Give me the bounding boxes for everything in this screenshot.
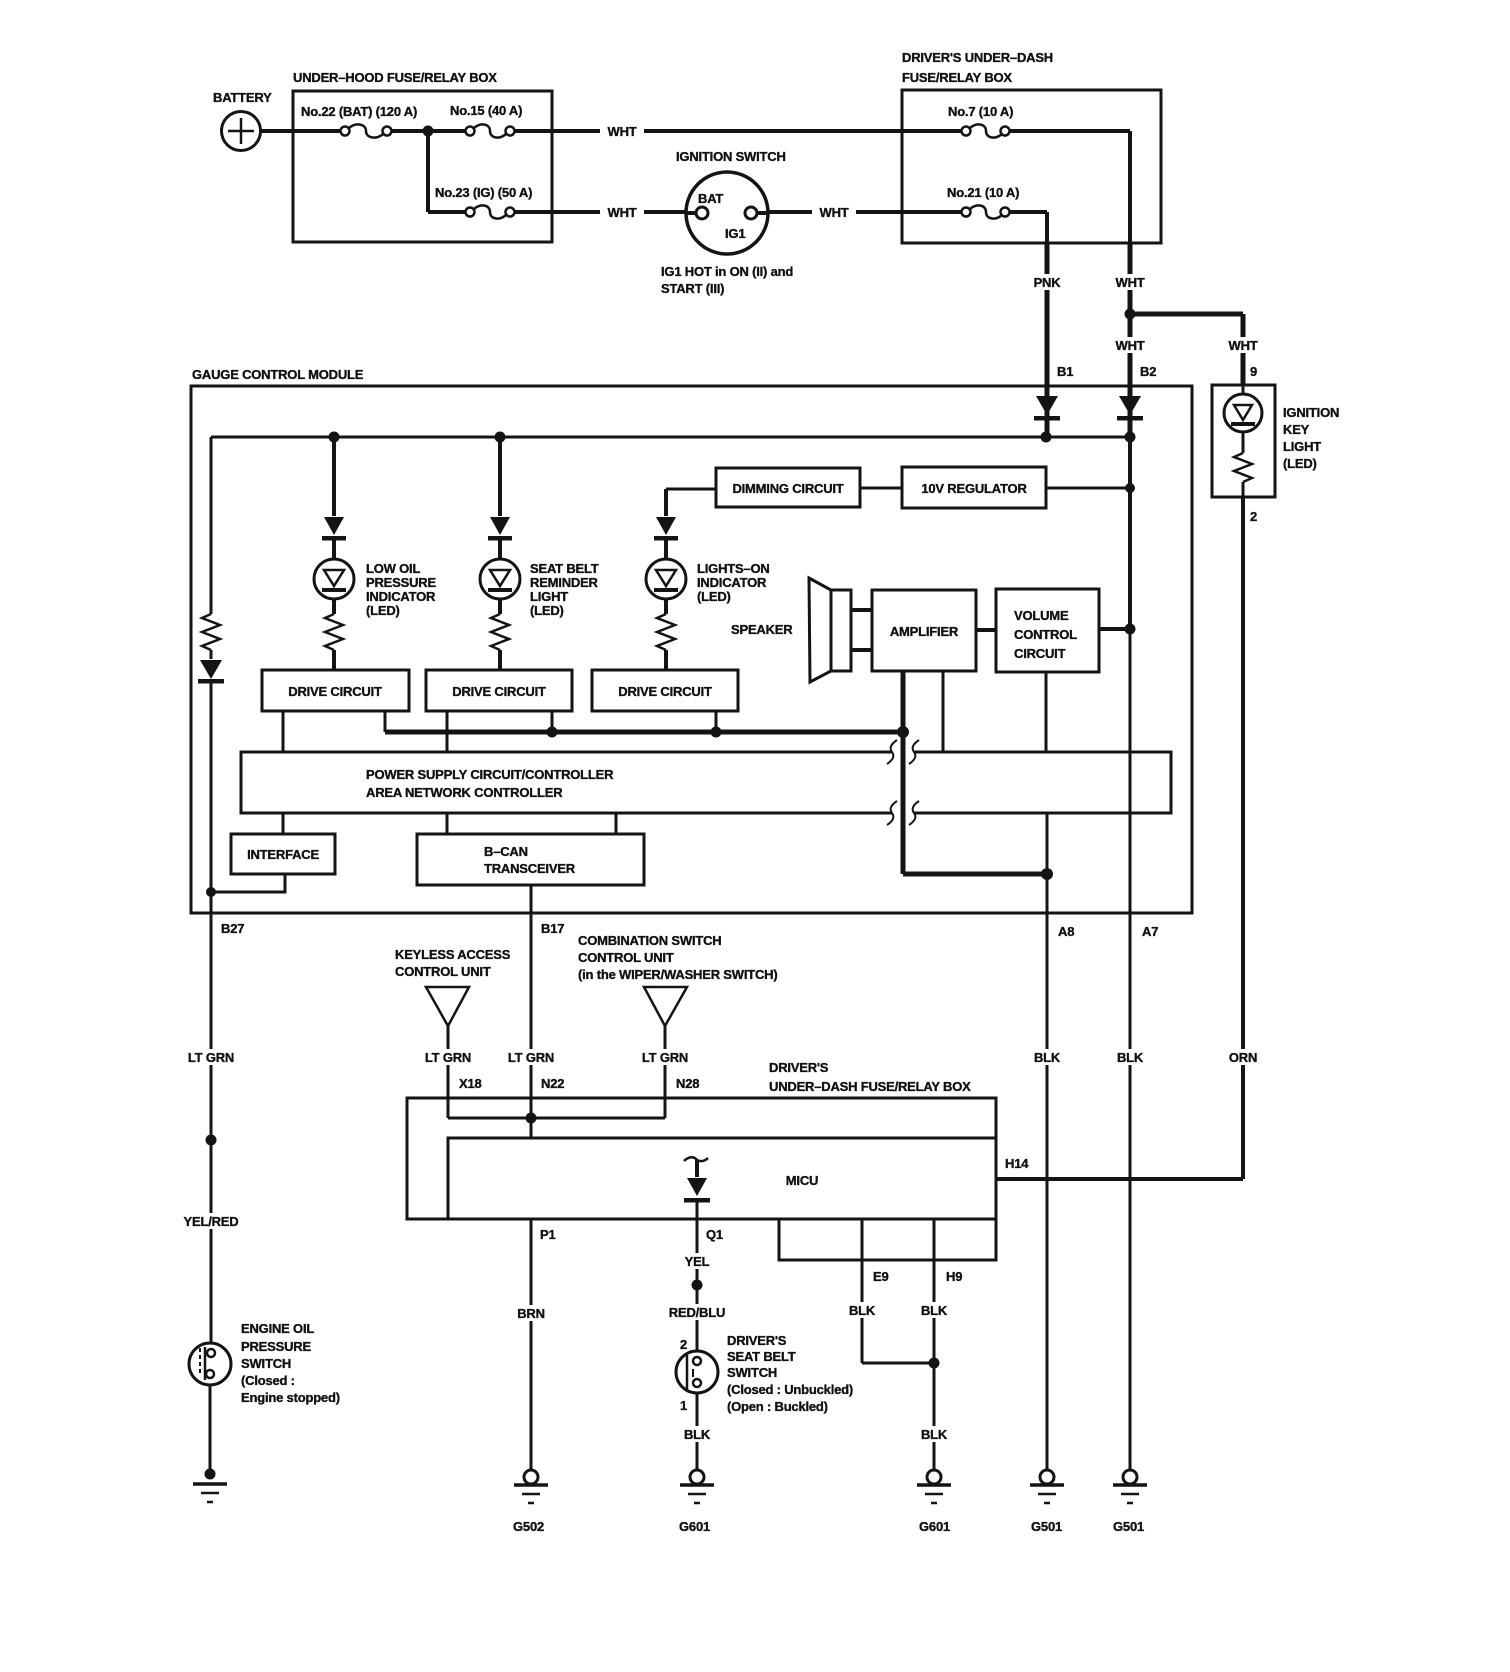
wire volume to WHT line [1099,627,1130,631]
resistor left spine [202,614,220,650]
svg-text:CONTROL UNIT: CONTROL UNIT [578,950,674,965]
svg-text:PNK: PNK [1034,275,1062,290]
ignition switch [676,149,786,254]
internal supply bus [211,436,1130,439]
svg-text:CONTROL: CONTROL [1014,627,1077,642]
svg-text:(Closed :: (Closed : [241,1373,295,1388]
ground G601 seat belt [679,1470,714,1534]
svg-text:DRIVER'S UNDER–DASH: DRIVER'S UNDER–DASH [902,50,1053,65]
svg-text:DRIVE CIRCUIT: DRIVE CIRCUIT [452,684,546,699]
node bus/B2 [1125,432,1136,443]
svg-text:No.22 (BAT) (120 A): No.22 (BAT) (120 A) [301,104,417,119]
node splice LT GRN / YEL RED [206,1135,217,1146]
wire branch to ignition key light [1130,312,1243,317]
diode Q1 inside MICU [684,1157,710,1351]
break mark bottom-right [909,801,919,825]
svg-text:X18: X18 [459,1076,482,1091]
wire down inside box WHT [1128,131,1132,243]
diode left spine [198,650,224,913]
wire B27 left spine below module [188,1049,234,1065]
svg-text:LIGHTS–ON: LIGHTS–ON [697,561,770,576]
svg-text:B27: B27 [221,921,244,936]
svg-text:(LED): (LED) [697,589,731,604]
svg-text:1: 1 [680,1398,687,1413]
node N22 join [526,1113,537,1124]
svg-text:CONTROL UNIT: CONTROL UNIT [395,964,491,979]
wire A7 down to ground [1129,629,1132,1471]
svg-text:BATTERY: BATTERY [213,90,272,105]
interface box [231,813,335,874]
wire WHT ignition to driver's box [768,210,962,214]
svg-text:(Open : Buckled): (Open : Buckled) [727,1399,828,1414]
node WHT branch junction [1125,309,1136,320]
MICU box [448,1138,996,1219]
note IG1 HOT [661,264,793,296]
svg-text:P1: P1 [540,1227,556,1242]
lower bus to amplifier [385,730,903,735]
wire WHT fuse23 to ignition switch [515,210,687,214]
wire drive3 to bus2 [715,711,718,732]
wire dimming to regulator [860,487,902,490]
fuse No.7 (10 A) [948,104,1013,138]
svg-text:GAUGE CONTROL MODULE: GAUGE CONTROL MODULE [192,367,364,382]
svg-text:SWITCH: SWITCH [727,1365,777,1380]
wire drive2 to bus2 [551,711,554,732]
10V regulator [902,467,1046,508]
wire amp to volume [976,628,996,632]
drive circuit box 3 [592,670,738,711]
wire junction to fuse15 [428,129,465,133]
svg-text:H14: H14 [1005,1156,1029,1171]
wire interface to left spine [211,874,285,892]
wire to fuse23 [428,210,465,214]
svg-text:10V REGULATOR: 10V REGULATOR [921,481,1027,496]
svg-text:DRIVER'S: DRIVER'S [727,1333,787,1348]
svg-text:IGNITION SWITCH: IGNITION SWITCH [676,149,786,164]
svg-text:UNDER–DASH FUSE/RELAY BOX: UNDER–DASH FUSE/RELAY BOX [769,1079,971,1094]
svg-text:SWITCH: SWITCH [241,1356,291,1371]
svg-text:YEL/RED: YEL/RED [184,1214,239,1229]
wire P1 down to ground G502 [530,1219,533,1471]
fuse No.22 (BAT) (120 A) [301,104,417,138]
svg-text:UNDER–HOOD FUSE/RELAY BOX: UNDER–HOOD FUSE/RELAY BOX [293,70,497,85]
combination switch control unit [578,933,778,1118]
svg-text:LT GRN: LT GRN [188,1050,234,1065]
svg-text:B–CAN: B–CAN [484,844,528,859]
svg-text:LT GRN: LT GRN [425,1050,471,1065]
LED chain 3: lights-on indicator [646,489,770,670]
wire PNK below box to module [1045,243,1050,395]
dimming circuit [716,468,860,507]
wire dimming to chain3 [666,488,716,491]
svg-text:INDICATOR: INDICATOR [366,589,436,604]
node interface join [206,887,216,897]
wire battery to under-hood box [260,129,340,133]
wire WHT below box down [1128,243,1133,395]
node bus/chain1 [329,432,340,443]
svg-text:LIGHT: LIGHT [1283,439,1321,454]
svg-text:G501: G501 [1113,1519,1144,1534]
node junction under-hood [423,126,434,137]
wire amp line to A8 junction [903,872,1047,877]
battery [213,90,272,151]
node bus2/drive2 [547,727,558,738]
svg-text:BLK: BLK [849,1303,876,1318]
svg-text:KEY: KEY [1283,422,1310,437]
svg-text:WHT: WHT [1116,275,1145,290]
svg-text:WHT: WHT [608,124,637,139]
wire WHT line down [1128,437,1132,629]
ignition key light (LED) [1212,385,1339,497]
ground G501 A8 [1030,1470,1064,1534]
svg-text:DRIVE CIRCUIT: DRIVE CIRCUIT [288,684,382,699]
svg-text:(in the WIPER/WASHER SWITCH): (in the WIPER/WASHER SWITCH) [578,967,778,982]
svg-text:B1: B1 [1057,364,1073,379]
svg-text:REMINDER: REMINDER [530,575,599,590]
break mark top-left [887,740,897,764]
wire E9 [861,1219,864,1363]
wire fuse7 to corner [1010,129,1130,133]
svg-text:WHT: WHT [608,205,637,220]
wire amplifier down through power box [901,671,906,874]
ground G502 [513,1470,548,1534]
svg-text:ENGINE OIL: ENGINE OIL [241,1321,314,1336]
ground G501 A7 [1113,1470,1147,1534]
svg-text:RED/BLU: RED/BLU [669,1305,725,1320]
wire drive1 to power supply [282,711,285,752]
wire joining X18 N22 N28 [448,1117,665,1120]
svg-text:LOW OIL: LOW OIL [366,561,420,576]
svg-text:BLK: BLK [684,1427,711,1442]
node bus/B1 [1041,432,1052,443]
fuse No.21 (10 A) [947,185,1019,219]
svg-text:TRANSCEIVER: TRANSCEIVER [484,861,576,876]
svg-text:LT GRN: LT GRN [508,1050,554,1065]
wire fuse21 to corner [1010,210,1047,214]
svg-text:E9: E9 [873,1269,889,1284]
wire H14 to ORN line [996,1177,1243,1181]
engine oil pressure switch [189,1321,340,1405]
node A8 junction [1041,868,1053,880]
svg-text:WHT: WHT [1116,338,1145,353]
svg-text:FUSE/RELAY BOX: FUSE/RELAY BOX [902,70,1012,85]
node splice YEL / RED BLU [692,1280,703,1291]
LED chain 2: seat belt reminder [480,437,599,670]
label WHT lower wire [600,204,644,220]
svg-text:DRIVER'S: DRIVER'S [769,1060,829,1075]
svg-text:Q1: Q1 [706,1227,723,1242]
svg-text:AREA NETWORK CONTROLLER: AREA NETWORK CONTROLLER [366,785,563,800]
svg-text:N28: N28 [676,1076,699,1091]
node bus2/drive3 [711,727,722,738]
svg-text:9: 9 [1250,364,1257,379]
svg-text:No.7 (10 A): No.7 (10 A) [948,104,1013,119]
gauge control module box [191,367,1192,913]
svg-text:DRIVE CIRCUIT: DRIVE CIRCUIT [618,684,712,699]
node volume/WHT [1125,624,1136,635]
svg-text:IGNITION: IGNITION [1283,405,1339,420]
svg-text:BLK: BLK [921,1303,948,1318]
drive circuit box 1 [262,670,409,711]
svg-text:B17: B17 [541,921,564,936]
svg-text:G502: G502 [513,1519,544,1534]
speaker [731,578,872,682]
under-hood fuse/relay box [293,70,552,242]
fuse No.23 (IG) (50 A) [435,185,532,219]
svg-text:SEAT BELT: SEAT BELT [727,1349,796,1364]
svg-text:INTERFACE: INTERFACE [247,847,319,862]
wire ORN key light down to H14 [1241,497,1245,1179]
svg-text:BLK: BLK [1117,1050,1144,1065]
wire WHT fuse15 to driver's box fuse7 [515,129,962,133]
svg-text:BAT: BAT [698,191,723,206]
wire Q1 labels [683,1253,712,1269]
svg-text:ORN: ORN [1229,1050,1257,1065]
drive circuit box 2 [426,670,572,711]
node bus/chain2 [495,432,506,443]
svg-text:PRESSURE: PRESSURE [241,1339,311,1354]
svg-text:INDICATOR: INDICATOR [697,575,767,590]
svg-text:IG1: IG1 [725,226,745,241]
volume control circuit [996,589,1099,672]
ground G601 H9 [917,1470,951,1534]
wire drive1 to bus2 [384,711,387,732]
MICU lower extension box [779,1219,996,1260]
svg-text:PRESSURE: PRESSURE [366,575,436,590]
wire oil switch to ground [209,1385,212,1474]
wire regulator to WHT line [1046,487,1130,490]
wire E9 to H9 [862,1362,934,1365]
svg-text:A7: A7 [1142,924,1158,939]
svg-text:LIGHT: LIGHT [530,589,568,604]
svg-text:POWER SUPPLY CIRCUIT/CONTROLLE: POWER SUPPLY CIRCUIT/CONTROLLER [366,767,614,782]
svg-text:DIMMING CIRCUIT: DIMMING CIRCUIT [732,481,843,496]
svg-text:SEAT BELT: SEAT BELT [530,561,599,576]
svg-text:SPEAKER: SPEAKER [731,622,793,637]
wire drive2 to power supply [446,711,449,752]
wire A8 down to ground [1046,874,1049,1471]
svg-text:(LED): (LED) [530,603,564,618]
diode B1 [1034,395,1060,437]
svg-text:(LED): (LED) [366,603,400,618]
wire H9 down to ground [933,1219,936,1471]
svg-text:(Closed : Unbuckled): (Closed : Unbuckled) [727,1382,853,1397]
svg-text:G601: G601 [679,1519,710,1534]
wire power box to A8 junction [1046,813,1049,874]
node regulator/WHT [1125,483,1135,493]
svg-text:MICU: MICU [786,1173,818,1188]
wire seat belt switch to ground [696,1393,699,1471]
driver's under-dash fuse/relay box (lower) [407,1060,996,1219]
svg-text:WHT: WHT [820,205,849,220]
svg-text:A8: A8 [1058,924,1074,939]
svg-text:CIRCUIT: CIRCUIT [1014,646,1066,661]
svg-text:G501: G501 [1031,1519,1062,1534]
svg-text:No.21 (10 A): No.21 (10 A) [947,185,1019,200]
amplifier [872,590,976,671]
node bus2/amplifier [897,726,909,738]
wire B17 from B-CAN down [530,885,533,1138]
break mark bottom-left [887,801,897,825]
svg-text:YEL: YEL [685,1254,710,1269]
diode B2 [1117,395,1143,437]
svg-text:COMBINATION SWITCH: COMBINATION SWITCH [578,933,721,948]
svg-text:BRN: BRN [517,1306,545,1321]
svg-text:BLK: BLK [1034,1050,1061,1065]
svg-text:B2: B2 [1140,364,1156,379]
svg-text:No.23 (IG) (50 A): No.23 (IG) (50 A) [435,185,532,200]
wire amplifier to power supply [942,671,945,752]
wire fuse22 to junction [392,129,428,133]
node E9/H9 [929,1358,940,1369]
svg-text:BLK: BLK [921,1427,948,1442]
svg-text:(LED): (LED) [1283,456,1317,471]
svg-text:G601: G601 [919,1519,950,1534]
svg-text:IG1 HOT in ON (II) and: IG1 HOT in ON (II) and [661,264,793,279]
svg-text:VOLUME: VOLUME [1014,608,1069,623]
svg-text:LT GRN: LT GRN [642,1050,688,1065]
svg-text:N22: N22 [541,1076,564,1091]
svg-text:No.15 (40 A): No.15 (40 A) [450,103,522,118]
left spine from bus [210,437,213,614]
wire left spine to oil switch [210,913,213,1343]
LED chain 1: low oil pressure [314,437,436,670]
label WHT top wire [600,123,644,139]
keyless access control unit [395,947,511,1118]
driver's seat belt switch [676,1333,853,1414]
svg-text:WHT: WHT [1229,338,1258,353]
wire volume down to power supply [1045,672,1048,752]
svg-text:H9: H9 [946,1269,962,1284]
svg-text:AMPLIFIER: AMPLIFIER [890,624,959,639]
svg-text:Engine stopped): Engine stopped) [241,1390,340,1405]
fuse No.15 (40 A) [450,103,522,138]
svg-text:2: 2 [1250,509,1257,524]
driver's under-dash fuse/relay box (top) [902,50,1161,243]
ground engine oil switch [193,1469,227,1503]
break mark top-right [909,740,919,764]
svg-text:KEYLESS ACCESS: KEYLESS ACCESS [395,947,511,962]
wire PNK down from fuse21 [1045,212,1049,243]
svg-text:START (III): START (III) [661,281,724,296]
svg-text:2: 2 [680,1337,687,1352]
B-CAN transceiver box [417,813,644,885]
power supply circuit/CAN controller box [241,752,1171,813]
wire junction down to IG row [426,131,430,212]
